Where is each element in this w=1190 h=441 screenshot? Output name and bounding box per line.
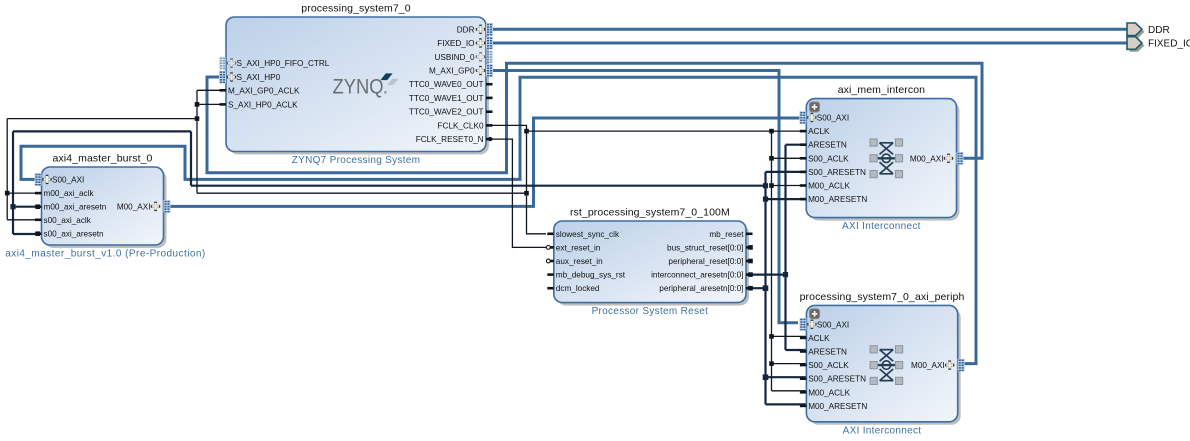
junction FCLK_CLK0 @right trunk top (769, 129, 774, 134)
wire net DDR bus (486, 28, 1128, 31)
port DDR (1130, 26, 1145, 39)
svg-text:S_AXI_HP0_ACLK: S_AXI_HP0_ACLK (228, 100, 298, 109)
junction FCLK_CLK0 @periph S00_ACLK (769, 361, 774, 366)
svg-text:S00_ACLK: S00_ACLK (808, 361, 849, 370)
svg-text:AXI Interconnect: AXI Interconnect (842, 221, 921, 232)
junction peripheral_aresetn @y185.7 (763, 183, 768, 188)
wire net FCLK_CLK0 from pin (490, 125, 546, 233)
wire net FCLK_CLK0 long left (197, 90, 527, 193)
junction FCLK_CLK0 @burst m00_axi_aclk (5, 191, 10, 196)
svg-text:DDR: DDR (457, 25, 475, 34)
svg-text:M00_ARESETN: M00_ARESETN (808, 402, 867, 411)
svg-text:FCLK_RESET0_N: FCLK_RESET0_N (416, 135, 484, 144)
svg-text:M00_AXI: M00_AXI (117, 202, 151, 211)
svg-text:DDR: DDR (1148, 25, 1170, 36)
junction peripheral_aresetn @rst pin (763, 285, 769, 291)
svg-text:S00_AXI: S00_AXI (52, 175, 84, 184)
wire net FCLK_CLK0 far left (7, 119, 197, 220)
svg-text:ACLK: ACLK (808, 334, 830, 343)
svg-text:TTC0_WAVE0_OUT: TTC0_WAVE0_OUT (409, 80, 484, 89)
junction FCLK_CLK0 @mem M00_ACLK (769, 183, 774, 188)
svg-text:axi4_master_burst_v1.0 (Pre-Pr: axi4_master_burst_v1.0 (Pre-Production) (5, 249, 205, 260)
junction FCLK_CLK0 @long-left branch (524, 191, 529, 196)
svg-text:mb_debug_sys_rst: mb_debug_sys_rst (556, 271, 626, 280)
svg-text:ARESETN: ARESETN (808, 348, 847, 357)
svg-text:S00_AXI: S00_AXI (817, 114, 849, 123)
block axi4_master_burst_0 (45, 170, 167, 248)
svg-text:mb_reset: mb_reset (709, 230, 744, 239)
junction FCLK_CLK0 @mem ACLK branch (524, 129, 529, 134)
svg-text:M00_ACLK: M00_ACLK (808, 182, 850, 191)
wire net peripheral_aresetn middle (13, 131, 766, 185)
junction peripheral_aresetn @mem M00_ARESETN (763, 197, 768, 202)
svg-text:Processor System Reset: Processor System Reset (592, 306, 709, 317)
FCLK_RESET0_N output bubble (488, 137, 492, 141)
svg-text:ACLK: ACLK (808, 127, 830, 136)
wire net burst S00_AXI from axi_periph M00_AXI (21, 77, 976, 363)
svg-text:peripheral_aresetn[0:0]: peripheral_aresetn[0:0] (659, 284, 743, 293)
svg-text:TTC0_WAVE2_OUT: TTC0_WAVE2_OUT (409, 108, 484, 117)
wire net peripheral_aresetn trunk left (13, 131, 36, 234)
svg-text:TTC0_WAVE1_OUT: TTC0_WAVE1_OUT (409, 94, 484, 103)
port FIXED_IO (1130, 39, 1145, 52)
processing_system7_0_axi_periph pins and icon (810, 309, 820, 319)
svg-text:S_AXI_HP0: S_AXI_HP0 (237, 73, 281, 82)
junction peripheral_aresetn @burst m00_axi_aresetn (10, 204, 15, 209)
svg-text:s00_axi_aclk: s00_axi_aclk (44, 216, 92, 225)
svg-text:m00_axi_aresetn: m00_axi_aresetn (44, 203, 107, 212)
svg-text:bus_struct_reset[0:0]: bus_struct_reset[0:0] (667, 243, 743, 252)
svg-text:processing_system7_0_axi_perip: processing_system7_0_axi_periph (800, 291, 965, 303)
svg-text:S00_AXI: S00_AXI (817, 320, 849, 329)
svg-text:ZYNQ: ZYNQ (333, 76, 384, 99)
rst pins (547, 233, 554, 236)
svg-text:peripheral_reset[0:0]: peripheral_reset[0:0] (668, 257, 743, 266)
junction peripheral_aresetn @periph S00_ARESETN (763, 374, 769, 380)
svg-text:ext_reset_in: ext_reset_in (556, 243, 601, 252)
svg-text:interconnect_aresetn[0:0]: interconnect_aresetn[0:0] (651, 271, 743, 280)
wire net FCLK_RESET0_N (490, 139, 546, 247)
svg-text:ARESETN: ARESETN (808, 141, 847, 150)
svg-text:s00_axi_aresetn: s00_axi_aresetn (44, 230, 105, 239)
svg-text:FCLK_CLK0: FCLK_CLK0 (438, 121, 484, 130)
svg-text:slowest_sync_clk: slowest_sync_clk (556, 230, 620, 239)
svg-text:m00_axi_aclk: m00_axi_aclk (44, 189, 95, 198)
junction FCLK_CLK0 @mem S00_ACLK (769, 156, 774, 161)
wire net S_AXI_HP0 from axi_mem_intercon M00_AXI (207, 63, 982, 173)
svg-text:M00_AXI: M00_AXI (910, 154, 944, 163)
svg-text:S_AXI_HP0_FIFO_CTRL: S_AXI_HP0_FIFO_CTRL (237, 59, 330, 68)
svg-text:aux_reset_in: aux_reset_in (556, 257, 603, 266)
svg-text:rst_processing_system7_0_100M: rst_processing_system7_0_100M (570, 207, 730, 219)
ps7 right scalar pins TTC0/FCLK (486, 83, 493, 86)
burst pins (35, 173, 42, 186)
ps7 left pins (219, 57, 226, 70)
wire net peripheral_aresetn trunk right (752, 172, 806, 405)
junction FCLK_CLK0 @far-left branch (195, 116, 200, 121)
svg-text:processing_system7_0: processing_system7_0 (301, 3, 410, 15)
wire net M_AXI_GP0 to axi_periph S00_AXI (493, 71, 798, 323)
svg-text:M00_AXI: M00_AXI (911, 361, 945, 370)
svg-text:M_AXI_GP0_ACLK: M_AXI_GP0_ACLK (228, 86, 300, 95)
wire net FCLK_CLK0 to mem ACLK (527, 130, 807, 132)
svg-text:FIXED_IO: FIXED_IO (437, 39, 474, 48)
svg-text:S00_ACLK: S00_ACLK (808, 154, 849, 163)
svg-text:M00_ARESETN: M00_ARESETN (808, 195, 867, 204)
ps7 right interface pins DDR/FIXED_IO/USBIND_0/M_AXI_GP0 (486, 23, 493, 36)
svg-text:S00_ARESETN: S00_ARESETN (808, 168, 866, 177)
block rst_processing_system7_0_100M (557, 224, 749, 306)
svg-text:USBIND_0: USBIND_0 (434, 53, 474, 62)
axi_mem_intercon pins and icon (810, 102, 820, 112)
svg-text:axi_mem_intercon: axi_mem_intercon (838, 84, 925, 96)
svg-text:ZYNQ7 Processing System: ZYNQ7 Processing System (292, 155, 421, 166)
wire net interconnect_aresetn (752, 145, 806, 350)
block processing_system7_0 (229, 20, 489, 155)
junction FCLK_CLK0 @periph ACLK (769, 334, 774, 339)
wire net FIXED_IO bus (486, 42, 1128, 45)
svg-text:S00_ARESETN: S00_ARESETN (808, 375, 866, 384)
block axi_mem_intercon (809, 102, 959, 221)
junction interconnect_aresetn @rst pin (783, 272, 788, 277)
svg-text:FIXED_IO: FIXED_IO (1148, 39, 1190, 50)
svg-text:AXI Interconnect: AXI Interconnect (843, 425, 922, 436)
junction FCLK_CLK0 @S_AXI_HP0_ACLK (195, 102, 200, 107)
block processing_system7_0_axi_periph (809, 308, 960, 424)
svg-text:dcm_locked: dcm_locked (556, 284, 600, 293)
svg-text:M_AXI_GP0: M_AXI_GP0 (429, 67, 475, 76)
wire net FCLK_CLK0 right trunk (772, 131, 807, 391)
svg-text:axi4_master_burst_0: axi4_master_burst_0 (53, 153, 153, 165)
wire net burst M00_AXI to axi_mem_intercon S00_AXI (171, 118, 800, 206)
svg-text:M00_ACLK: M00_ACLK (808, 388, 850, 397)
